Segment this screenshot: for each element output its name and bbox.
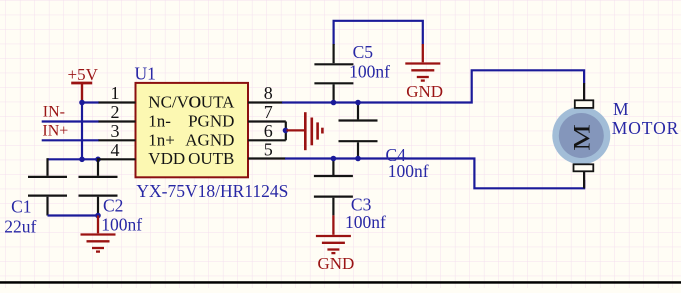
sheet bottom border	[0, 281, 681, 284]
power +5V bar symbol	[71, 82, 92, 85]
signal ground symbol (rotated)	[287, 112, 323, 150]
pin 7	[248, 120, 286, 122]
ground symbol top right	[405, 44, 440, 81]
svg-text:C1: C1	[11, 197, 31, 217]
svg-text:5: 5	[264, 140, 273, 160]
svg-text:22uf: 22uf	[4, 216, 36, 236]
node junction pin4/+5V	[79, 157, 85, 163]
svg-text:100nf: 100nf	[349, 62, 390, 82]
svg-text:GND: GND	[318, 254, 355, 273]
pin 8	[248, 101, 283, 103]
capacitor C5	[314, 44, 353, 103]
motor bottom terminal	[583, 171, 585, 188]
wire pin4 net	[48, 158, 100, 160]
svg-text:100nf: 100nf	[345, 212, 386, 232]
svg-text:2: 2	[111, 102, 120, 122]
svg-text:U1: U1	[135, 64, 156, 84]
wire C5 top loop	[334, 21, 423, 45]
svg-text:AGND: AGND	[185, 130, 234, 149]
svg-text:GND: GND	[406, 82, 443, 101]
capacitor C3	[314, 159, 353, 216]
wire IN+	[42, 139, 99, 141]
capacitor C2	[79, 158, 118, 215]
pin 1	[99, 101, 136, 103]
wire C1 to C2 bottom	[48, 214, 99, 216]
capacitor C4 (middle)	[339, 103, 378, 159]
svg-text:1n+: 1n+	[148, 130, 175, 149]
svg-text:1: 1	[111, 83, 120, 103]
svg-text:3: 3	[111, 121, 120, 141]
pin 5	[248, 157, 286, 159]
wire OUTA net	[282, 70, 584, 102]
svg-text:M: M	[613, 99, 629, 119]
motor letter M (rotated)	[569, 124, 595, 151]
wire pin1	[81, 101, 99, 103]
op-amp U1 box	[136, 83, 249, 177]
pin 3	[99, 139, 136, 141]
node junction C4/OUTA	[355, 100, 361, 106]
svg-text:1n-: 1n-	[148, 112, 171, 131]
svg-text:IN+: IN+	[42, 123, 68, 140]
ground symbol below C2	[81, 216, 116, 252]
svg-text:OUTA: OUTA	[189, 93, 236, 112]
motor top terminal	[583, 83, 585, 100]
capacitor C1	[28, 158, 67, 215]
svg-text:C2: C2	[103, 196, 123, 216]
svg-text:4: 4	[111, 140, 120, 160]
svg-text:PGND: PGND	[188, 112, 234, 131]
node junction AGND	[283, 128, 289, 134]
node junction C3/OUTB	[331, 156, 337, 162]
svg-text:MOTOR: MOTOR	[612, 118, 679, 138]
wire +5V vertical to pin4	[81, 103, 83, 160]
node junction pin4/C2	[95, 157, 101, 163]
wire IN-	[42, 120, 99, 122]
pin 4	[99, 158, 136, 160]
node junction C5/OUTA	[331, 100, 337, 106]
svg-text:6: 6	[264, 121, 273, 141]
wire pin7 to pin6 connector	[285, 122, 287, 141]
svg-text:M: M	[569, 124, 595, 151]
svg-text:8: 8	[264, 83, 273, 103]
svg-text:+5V: +5V	[68, 65, 99, 84]
svg-text:IN-: IN-	[43, 103, 65, 120]
node junction C4/OUTB	[355, 156, 361, 162]
svg-text:VDD: VDD	[148, 149, 185, 168]
ground symbol below C3	[316, 215, 351, 253]
pin 6	[248, 139, 286, 141]
svg-text:YX-75V18/HR1124S: YX-75V18/HR1124S	[136, 181, 288, 201]
svg-text:100nf: 100nf	[388, 161, 429, 181]
pin 2	[99, 120, 136, 122]
svg-text:7: 7	[264, 102, 273, 122]
node junction pin1/+5V	[79, 100, 85, 106]
svg-text:C5: C5	[353, 42, 374, 62]
svg-text:100nf: 100nf	[101, 215, 142, 235]
svg-text:OUTB: OUTB	[188, 149, 234, 168]
wire OUTB net	[285, 159, 584, 189]
power +5V stub	[81, 83, 83, 103]
node junction C2/GND	[95, 213, 101, 219]
motor M1 body	[552, 107, 610, 165]
